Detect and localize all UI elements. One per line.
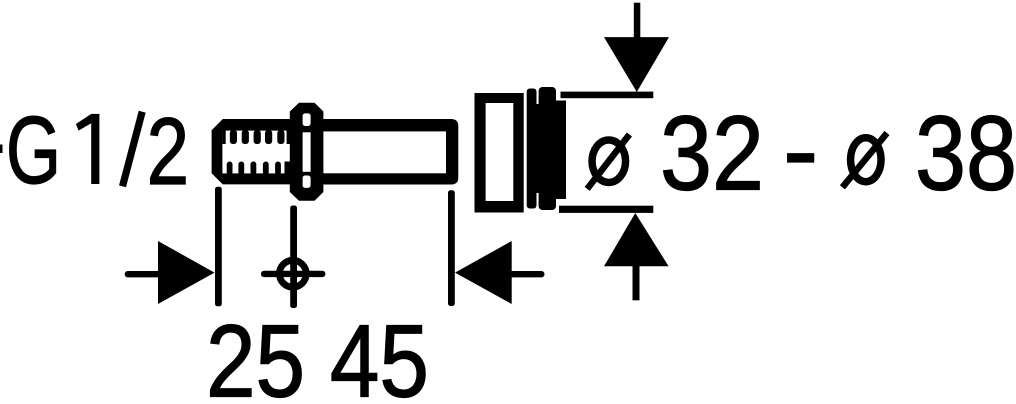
rib gap filler — [536, 104, 540, 193]
hex nut collar — [290, 103, 324, 201]
label diameter symbol 1 — [587, 135, 629, 189]
thread teeth top comb — [222, 130, 292, 144]
dim extension line left (25 start) — [215, 187, 222, 307]
bottom diameter arrow (points up) — [559, 206, 669, 301]
svg-text:32: 32 — [660, 94, 764, 212]
dim arrow left (points right) — [125, 241, 215, 304]
dim extension line right (45 end) — [448, 190, 455, 306]
pipe shank — [320, 119, 458, 185]
cone rib 2 — [539, 87, 556, 210]
dim arrow right (points left) — [455, 241, 545, 304]
svg-text:G: G — [6, 97, 61, 204]
thread teeth bottom comb — [227, 162, 292, 176]
label digit 1 — [76, 114, 99, 184]
collar flange (right component) — [475, 93, 524, 213]
top diameter arrow (points down) — [561, 3, 670, 99]
svg-text:38: 38 — [915, 94, 1016, 212]
cone body block — [549, 101, 566, 200]
threaded spigot body outline — [212, 119, 292, 184]
label diameter symbol 2 — [842, 133, 887, 187]
dim centre line (25/45 boundary) — [290, 206, 297, 309]
cone rib 1 — [527, 89, 537, 209]
svg-text:2: 2 — [147, 99, 190, 205]
centre mark ring — [261, 260, 325, 287]
svg-text:-: - — [783, 91, 818, 209]
svg-text:25 45: 25 45 — [206, 304, 429, 404]
label slash — [123, 112, 143, 187]
edge tick left margin — [0, 145, 3, 154]
